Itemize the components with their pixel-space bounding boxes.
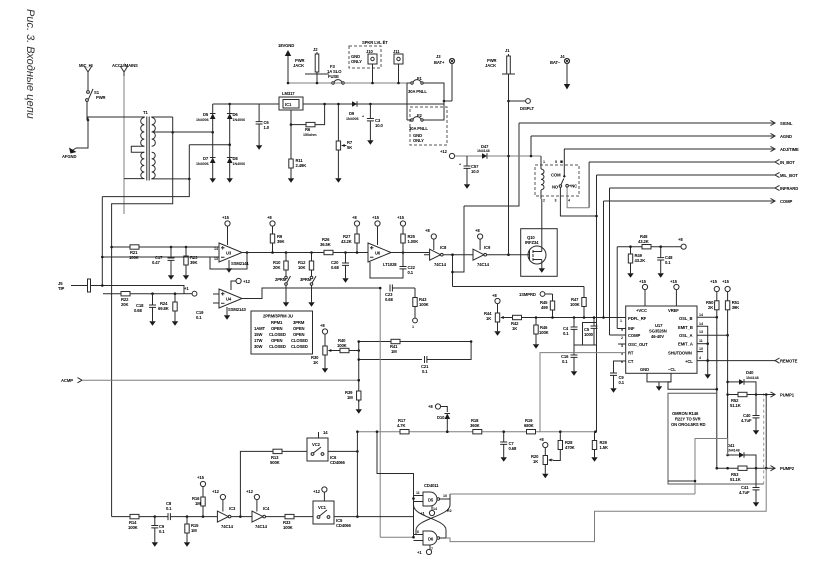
- wire ACMP row: [82, 379, 359, 381]
- svg-text:OPEN: OPEN: [293, 332, 305, 337]
- wire op2 output: [391, 252, 403, 254]
- svg-text:D10: D10: [437, 415, 445, 420]
- capacitor C24 0.1: [573, 316, 576, 319]
- relay K1 contacts: [563, 175, 566, 178]
- svg-text:REMOTE: REMOTE: [780, 359, 798, 364]
- node AGND junction: [87, 119, 90, 122]
- svg-text:CT: CT: [628, 359, 634, 364]
- node PUMP1: [771, 392, 776, 397]
- gate U10 74C14: [217, 511, 231, 522]
- svg-text:0.68: 0.68: [385, 297, 394, 302]
- svg-text:0.1: 0.1: [166, 506, 172, 511]
- capacitor C41 4.7uF: [755, 468, 757, 500]
- capacitor C28 0.1: [659, 245, 662, 248]
- svg-text:COM: COM: [551, 173, 561, 178]
- junction bus 341: [357, 349, 360, 352]
- pin stub OSC_OUT: [618, 343, 626, 345]
- diode D47 1N4148: [482, 153, 487, 159]
- wire RT gray: [540, 353, 626, 432]
- diode D9 1N4006: [352, 101, 357, 107]
- resistor R14 100K: [130, 514, 139, 518]
- svg-text:CD4066: CD4066: [330, 460, 346, 465]
- capacitor C6: [258, 104, 260, 143]
- svg-text:1AMT: 1AMT: [254, 326, 266, 331]
- svg-text:+15: +15: [670, 279, 678, 284]
- svg-text:0.47: 0.47: [152, 260, 161, 265]
- svg-text:CLOSED: CLOSED: [291, 344, 308, 349]
- resistor R49 43.2K: [629, 245, 632, 248]
- transformer T1 secondary winding: [152, 118, 156, 147]
- svg-text:1N4148: 1N4148: [727, 449, 740, 453]
- svg-text:36.5K: 36.5K: [320, 242, 331, 247]
- wire top distribution row (gray): [288, 82, 412, 84]
- svg-text:OPEN: OPEN: [293, 326, 305, 331]
- svg-text:COMP: COMP: [628, 333, 640, 338]
- svg-text:2: 2: [543, 199, 545, 203]
- node PUMP2: [771, 466, 776, 471]
- svg-text:11: 11: [699, 339, 703, 343]
- junction D5 top: [228, 103, 231, 106]
- ground op1: [228, 260, 230, 266]
- svg-text:EMIT_B: EMIT_B: [678, 325, 693, 330]
- svg-text:+12: +12: [246, 489, 254, 494]
- resistor R50 2K: [716, 292, 718, 301]
- transistor Q10 IRFZ34 box: [521, 229, 558, 277]
- wire net IN_BOT: [589, 161, 775, 163]
- svg-text:D8: D8: [233, 156, 239, 161]
- wire secondary tap D5 row: [152, 131, 213, 133]
- wire op4 output to bus: [242, 288, 380, 299]
- wire latch set feed: [376, 430, 379, 433]
- svg-text:+8: +8: [352, 215, 357, 220]
- svg-text:0.1: 0.1: [408, 270, 414, 275]
- wire q to pump1: [695, 439, 728, 495]
- wire row 317 to IC: [522, 317, 626, 319]
- svg-text:1K: 1K: [533, 459, 538, 464]
- svg-text:J4: J4: [560, 54, 565, 59]
- svg-text:4.7uF: 4.7uF: [741, 418, 752, 423]
- relay K1 dashed box: [535, 165, 579, 196]
- connector J2 power jack left: [305, 52, 329, 83]
- wire cap commons: [574, 344, 594, 346]
- wire AGND drop: [530, 136, 532, 156]
- svg-text:1K: 1K: [512, 326, 517, 331]
- svg-text:COMP: COMP: [780, 199, 792, 204]
- svg-text:360K: 360K: [470, 423, 480, 428]
- svg-text:CD4011: CD4011: [424, 483, 439, 488]
- junction C9b: [154, 515, 157, 518]
- junction pump1: [726, 381, 729, 384]
- diode D10: [445, 414, 451, 420]
- diode D6 1N4006: [227, 114, 233, 120]
- transformer T1 primary winding: [141, 118, 145, 147]
- svg-text:1M: 1M: [391, 349, 397, 354]
- svg-text:R6: R6: [305, 127, 311, 132]
- resistor R12 10K: [310, 251, 313, 254]
- svg-text:+12: +12: [243, 279, 251, 284]
- wire left bus A down to mic section: [101, 197, 103, 286]
- wire relay coil to mosfet drain: [541, 199, 543, 246]
- svg-text:4.7K: 4.7K: [397, 423, 406, 428]
- svg-text:100K: 100K: [539, 330, 549, 335]
- wire J1 sense drop: [508, 101, 510, 255]
- svg-text:1N4006: 1N4006: [233, 118, 246, 122]
- wire pump feed A vertical: [716, 310, 718, 468]
- svg-text:PWR: PWR: [96, 95, 106, 100]
- wire secondary top tap: [152, 116, 173, 119]
- svg-text:D7: D7: [203, 156, 209, 161]
- svg-text:15W: 15W: [254, 332, 262, 337]
- svg-text:51.1K: 51.1K: [730, 477, 741, 482]
- transformer T1 core: [147, 117, 149, 181]
- svg-text:20K: 20K: [121, 302, 128, 307]
- wire net INFRARD: [610, 187, 776, 189]
- svg-text:14: 14: [214, 247, 218, 251]
- wire row 286: [453, 286, 585, 288]
- junction osc feed: [716, 388, 719, 391]
- switch IC6 CD4066 upper: [307, 438, 328, 461]
- svg-text:D5: D5: [428, 498, 434, 503]
- svg-text:IRFZ34: IRFZ34: [525, 240, 539, 245]
- svg-text:10.0: 10.0: [375, 123, 384, 128]
- trimmer R30 1K: [323, 346, 333, 355]
- wire INFRARD drop: [609, 188, 611, 335]
- svg-text:14: 14: [699, 313, 703, 317]
- wire op1 feedback loop: [210, 253, 247, 270]
- capacitor C25 1000p boxed: [583, 323, 597, 346]
- svg-text:+8: +8: [475, 228, 480, 233]
- svg-text:1SMPRD: 1SMPRD: [519, 292, 536, 297]
- svg-text:OSL_B: OSL_B: [679, 316, 693, 321]
- wire pump link vertical: [765, 395, 767, 469]
- svg-text:0.68: 0.68: [134, 308, 143, 313]
- wire OSL_A row: [697, 334, 728, 336]
- svg-text:100K: 100K: [337, 343, 347, 348]
- svg-text:+15: +15: [397, 215, 405, 220]
- svg-text:1.5K: 1.5K: [600, 445, 609, 450]
- junction pump2: [726, 454, 729, 457]
- svg-text:D41: D41: [727, 443, 735, 448]
- svg-text:IC8: IC8: [440, 245, 447, 250]
- junction R470K: [559, 430, 562, 433]
- svg-text:18VGND: 18VGND: [278, 43, 294, 48]
- resistor R22 20K: [121, 292, 130, 296]
- power +12 gate a: [431, 506, 433, 510]
- svg-text:PUMP1: PUMP1: [780, 393, 795, 398]
- switch S1: [86, 89, 93, 120]
- diode D41 1N4148: [728, 454, 739, 456]
- wire secondary bottom tap: [152, 178, 190, 180]
- diode D8 1N4006: [228, 143, 231, 146]
- svg-text:OMRON R146: OMRON R146: [672, 411, 699, 416]
- svg-text:ACMP: ACMP: [61, 378, 73, 383]
- svg-text:499: 499: [541, 305, 548, 310]
- svg-text:RPM1: RPM1: [271, 320, 283, 325]
- testpoint +15 row293: [192, 291, 197, 296]
- dashed line pump: [763, 393, 765, 484]
- svg-text:OPEN: OPEN: [271, 338, 283, 343]
- resistor R13 500K: [273, 449, 282, 453]
- svg-text:+15: +15: [222, 215, 230, 220]
- svg-text:EMIT_A: EMIT_A: [678, 342, 693, 347]
- resistor R43 100K: [414, 288, 416, 298]
- svg-text:2PRM/3PRM JU: 2PRM/3PRM JU: [263, 314, 293, 319]
- svg-text:14: 14: [699, 322, 703, 326]
- resistor R23: [185, 246, 188, 249]
- svg-text:BAT+: BAT+: [434, 60, 445, 65]
- wire mid bus vertical: [358, 342, 360, 403]
- svg-text:+VCC: +VCC: [636, 308, 647, 313]
- svg-text:+15: +15: [639, 279, 647, 284]
- resistor R33 100K: [285, 514, 294, 518]
- svg-text:+8: +8: [320, 323, 325, 328]
- svg-text:ACCU/MAINS: ACCU/MAINS: [112, 63, 138, 68]
- ground mosfet source: [539, 266, 545, 273]
- svg-text:JACK: JACK: [485, 63, 496, 68]
- svg-text:46-40V: 46-40V: [651, 334, 664, 339]
- svg-text:AGND: AGND: [780, 134, 792, 139]
- resistor R45 499: [552, 294, 554, 301]
- resistor R15 1M: [186, 517, 188, 524]
- capacitor C20 0.68: [344, 251, 347, 254]
- wire +CL REMOTE row: [697, 360, 775, 362]
- op-amp U4 SSM2143: [213, 294, 219, 303]
- svg-text:1K: 1K: [486, 316, 491, 321]
- wire row 341 to R41: [359, 341, 471, 343]
- wire ADJ/TIME drop to relay pole: [563, 149, 565, 176]
- wire mic row 2: [102, 256, 213, 258]
- svg-text:2: 2: [621, 336, 623, 340]
- wire to AFGND: [76, 120, 88, 148]
- svg-text:+15: +15: [722, 279, 730, 284]
- wire SIGNL drop: [464, 123, 519, 206]
- svg-text:1.0: 1.0: [264, 125, 270, 130]
- power +12 op4: [231, 281, 236, 290]
- wire left bus B down to bottom section: [111, 204, 113, 517]
- connector MIC_HI: [84, 66, 92, 76]
- capacitor C9 0.1: [154, 517, 156, 540]
- svg-text:1: 1: [412, 325, 414, 329]
- svg-text:ONLY: ONLY: [413, 138, 424, 143]
- junction: [188, 178, 191, 181]
- IC U17 SG3526 box: [626, 306, 697, 373]
- wire relay NO to MIL_BOT: [560, 187, 596, 216]
- resistor R53 51.1K: [717, 467, 738, 469]
- resistor R52 51.1K: [726, 393, 729, 396]
- wire tap down left leg: [112, 117, 173, 204]
- svg-text:J1: J1: [505, 48, 510, 53]
- junction C3: [369, 103, 372, 106]
- svg-text:−CL: −CL: [668, 367, 676, 372]
- svg-text:1N4006: 1N4006: [233, 162, 246, 166]
- resistor R17 4.7K: [400, 430, 409, 434]
- svg-text:+15: +15: [372, 215, 380, 220]
- wire EMIT_B row: [697, 326, 708, 344]
- svg-text:17W: 17W: [254, 338, 262, 343]
- svg-text:SPKR LVL ĒT: SPKR LVL ĒT: [362, 40, 388, 45]
- wire MIC_HI down to switch: [87, 76, 89, 90]
- svg-text:INFRARD: INFRARD: [780, 186, 798, 191]
- connector AFGND arrow: [70, 148, 76, 152]
- wire latch cross coupling: [414, 499, 451, 538]
- svg-text:2.49K: 2.49K: [296, 163, 307, 168]
- svg-text:1.00K: 1.00K: [408, 239, 419, 244]
- svg-text:DISPLT: DISPLT: [520, 106, 535, 111]
- svg-text:13: 13: [699, 330, 703, 334]
- svg-text:20K: 20K: [273, 265, 280, 270]
- capacitor C16 0.1: [573, 345, 575, 369]
- svg-text:43.2K: 43.2K: [638, 239, 649, 244]
- wire mic row 1: [112, 246, 213, 248]
- svg-text:74C14: 74C14: [434, 262, 447, 267]
- resistor R42 1K series: [506, 317, 513, 319]
- resistor R21: [130, 245, 139, 249]
- resistor R47 100K: [583, 287, 585, 298]
- svg-text:IC9: IC9: [484, 245, 491, 250]
- wire main +V rail: [213, 103, 279, 105]
- svg-text:JACK: JACK: [293, 63, 304, 68]
- svg-text:1N4148: 1N4148: [746, 376, 759, 380]
- svg-text:1N4006: 1N4006: [346, 117, 359, 121]
- svg-text:39K: 39K: [732, 305, 739, 310]
- svg-text:1000: 1000: [584, 332, 594, 337]
- svg-text:39K: 39K: [277, 239, 284, 244]
- transistor Q10 mosfet symbol: [528, 246, 546, 264]
- wire INF drop from row246: [616, 247, 618, 329]
- svg-text:51.1K: 51.1K: [730, 403, 741, 408]
- wire timing row gray: [357, 431, 595, 433]
- svg-text:SIGNL: SIGNL: [780, 121, 793, 126]
- svg-text:3: 3: [555, 199, 557, 203]
- resistor R46 100K: [535, 318, 537, 326]
- svg-text:10: 10: [699, 347, 703, 351]
- table box 2PRM/3PRM: [251, 311, 313, 354]
- wire IC bottom rail to pump feed: [668, 382, 717, 389]
- svg-text:+8: +8: [267, 215, 272, 220]
- svg-text:+1: +1: [184, 286, 189, 291]
- svg-text:+15: +15: [197, 475, 205, 480]
- junction R16: [202, 515, 205, 518]
- testpoint DISPLT: [509, 100, 526, 102]
- svg-text:0.1: 0.1: [422, 369, 428, 374]
- svg-text:500K: 500K: [270, 460, 280, 465]
- svg-text:GND: GND: [640, 367, 649, 372]
- svg-text:3: 3: [621, 344, 623, 348]
- svg-text:2K: 2K: [708, 305, 713, 310]
- wire primary bottom tap to ACCU: [124, 178, 144, 180]
- wire switch common vertical: [356, 432, 358, 517]
- svg-text:3PRM: 3PRM: [293, 320, 305, 325]
- wire net MIL_BOT: [597, 174, 776, 176]
- svg-text:+: +: [459, 163, 461, 167]
- svg-text:CLOSED: CLOSED: [269, 332, 286, 337]
- svg-text:74C14: 74C14: [221, 524, 234, 529]
- svg-text:J3: J3: [436, 54, 441, 59]
- svg-text:74C14: 74C14: [477, 262, 490, 267]
- wire ACCU down (gray): [123, 76, 125, 178]
- power +8 row246: [681, 244, 686, 249]
- resistor R28 470K: [559, 432, 561, 441]
- junction R29: [594, 430, 597, 433]
- wire row 293.7: [184, 293, 192, 295]
- capacitor C26 0.1 timing: [610, 373, 617, 375]
- diode D7 1N4006: [211, 131, 214, 134]
- svg-text:0.1: 0.1: [665, 260, 671, 265]
- svg-text:ONLY: ONLY: [351, 59, 362, 64]
- svg-text:6: 6: [417, 530, 419, 534]
- svg-text:D6: D6: [233, 112, 239, 117]
- svg-text:+8: +8: [428, 404, 433, 409]
- wire CT to cap: [614, 361, 626, 373]
- svg-text:SSM2143: SSM2143: [228, 307, 246, 312]
- resistor R40 100K wiper: [333, 350, 340, 352]
- svg-text:LT1028: LT1028: [383, 262, 397, 267]
- svg-text:+: +: [362, 115, 364, 119]
- svg-text:SHUTDOWN: SHUTDOWN: [668, 351, 692, 356]
- svg-text:13: 13: [214, 257, 218, 261]
- testpoint TP1: [413, 318, 418, 323]
- wire feed upper switch: [240, 451, 273, 516]
- wire net ADJ/TIME: [564, 148, 775, 150]
- svg-text:1N4006: 1N4006: [196, 162, 209, 166]
- jumper 3PRM: [311, 270, 313, 276]
- wire COMP pin to INFRARD drop: [610, 334, 626, 336]
- resistor R48 43.2K row 246: [617, 246, 642, 248]
- svg-text:0.1: 0.1: [159, 529, 165, 534]
- resistor R10 20K: [285, 251, 288, 254]
- svg-text:IC1: IC1: [285, 102, 292, 107]
- svg-text:+1: +1: [417, 550, 422, 555]
- svg-text:+15: +15: [710, 279, 718, 284]
- diode D5 1N4006: [210, 114, 216, 120]
- wire EMIT_A row: [697, 343, 708, 345]
- svg-text:D6: D6: [428, 537, 434, 542]
- svg-text:100K: 100K: [128, 525, 138, 530]
- capacitor C18 0.68: [151, 292, 154, 295]
- junction row317: [535, 316, 538, 319]
- svg-text:69.8K: 69.8K: [158, 306, 169, 311]
- svg-text:TIP: TIP: [58, 286, 65, 291]
- svg-text:T1: T1: [143, 110, 148, 115]
- svg-text:680K: 680K: [524, 423, 534, 428]
- wire signal row stage2: [403, 252, 429, 254]
- svg-text:10.0: 10.0: [471, 169, 480, 174]
- gate U8 74C14 inv1: [430, 249, 444, 260]
- svg-text:+8: +8: [678, 237, 683, 242]
- junction ADJ: [290, 123, 293, 126]
- svg-text:CD4066: CD4066: [336, 523, 352, 528]
- svg-text:0.1: 0.1: [562, 359, 568, 364]
- wire op1 output: [242, 252, 247, 254]
- svg-text:IC3: IC3: [229, 506, 236, 511]
- svg-text:AFGND: AFGND: [62, 154, 76, 159]
- dashed box F2 GND ONLY: [410, 107, 447, 145]
- resistor R18 360K: [473, 430, 482, 434]
- svg-text:J10: J10: [366, 49, 373, 54]
- svg-text:D5: D5: [203, 112, 209, 117]
- capacitor C21 0.1: [425, 356, 427, 363]
- svg-text:R2: R2: [447, 509, 452, 513]
- wire net SIGNL: [519, 122, 775, 124]
- svg-text:MIL_BOT: MIL_BOT: [780, 173, 798, 178]
- svg-text:+CL: +CL: [685, 359, 693, 364]
- svg-text:1K: 1K: [313, 360, 318, 365]
- svg-text:+8: +8: [425, 228, 430, 233]
- svg-text:OSL_A: OSL_A: [679, 333, 693, 338]
- svg-text:1M: 1M: [191, 528, 197, 533]
- wire ACCU stub below: [123, 178, 125, 214]
- wire COMP drop: [603, 201, 605, 318]
